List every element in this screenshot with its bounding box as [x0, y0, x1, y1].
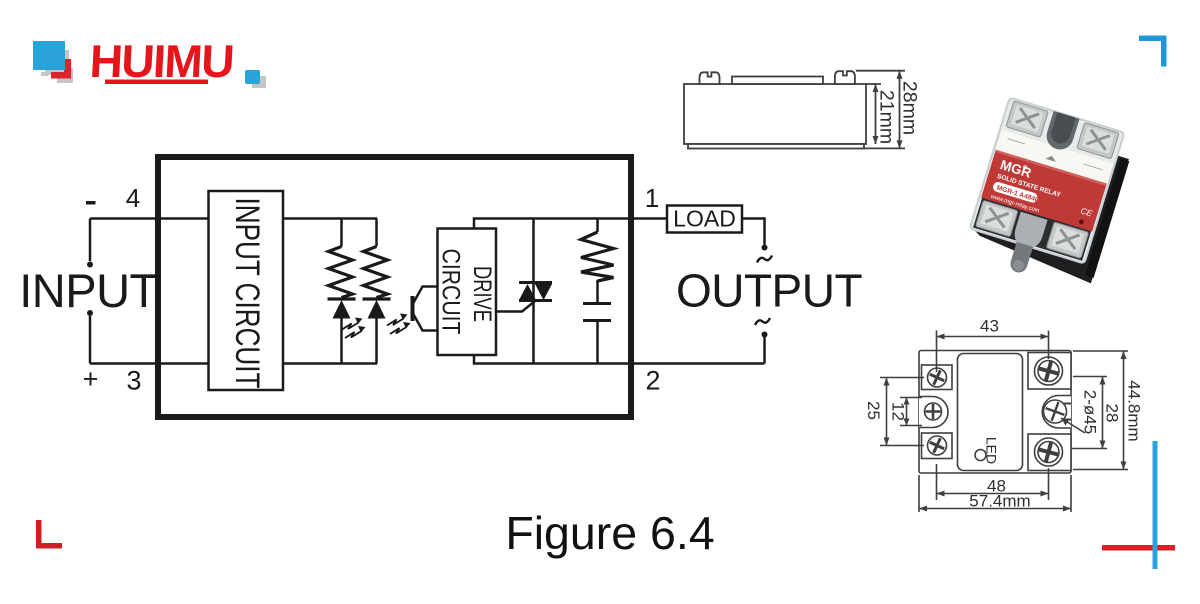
svg-text:INPUT: INPUT: [19, 264, 158, 317]
svg-text:LED: LED: [984, 437, 1000, 464]
svg-text:DRIVE: DRIVE: [468, 266, 496, 322]
svg-text:LOAD: LOAD: [673, 206, 736, 232]
svg-text:57.4mm: 57.4mm: [969, 492, 1030, 511]
svg-text:21mm: 21mm: [876, 90, 898, 144]
svg-text:12: 12: [889, 402, 908, 421]
svg-text:2-ø45: 2-ø45: [1081, 390, 1100, 434]
svg-text:3: 3: [126, 366, 141, 396]
svg-text:25: 25: [864, 401, 883, 420]
svg-text:INPUT CIRCUIT: INPUT CIRCUIT: [228, 198, 266, 389]
svg-text:1: 1: [645, 183, 659, 213]
svg-text:Figure 6.4: Figure 6.4: [505, 507, 714, 559]
svg-text:HUIMU: HUIMU: [88, 35, 234, 87]
svg-text:2: 2: [645, 366, 660, 396]
svg-text:28: 28: [1103, 404, 1122, 423]
svg-text:28mm: 28mm: [899, 81, 921, 135]
svg-text:4: 4: [126, 183, 140, 213]
svg-text:43: 43: [980, 317, 999, 336]
svg-text:OUTPUT: OUTPUT: [676, 265, 863, 317]
svg-text:CIRCUIT: CIRCUIT: [437, 249, 465, 335]
svg-text:+: +: [83, 364, 99, 394]
svg-text:44.8mm: 44.8mm: [1125, 380, 1144, 441]
